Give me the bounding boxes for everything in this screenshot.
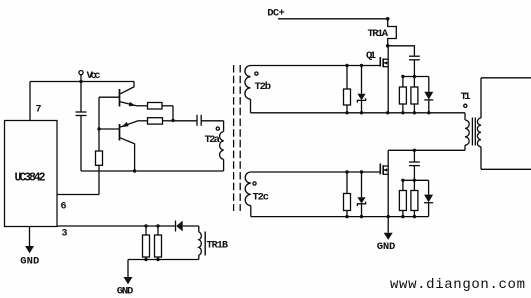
diode D1 [428,77,430,92]
node junction Q1source-railA [386,111,389,114]
svg-text:TR1B: TR1B [207,240,229,251]
node junction R6-railA [401,111,404,114]
diode D3 (cathode left) [175,221,177,232]
node junction base Qb [97,127,100,130]
resistor R1 (top, horizontal) [148,103,163,110]
svg-text:Vcc: Vcc [87,70,101,82]
node junction R8-gate rail 2 [345,170,348,173]
wire T2c top rail [251,171,380,173]
transformer winding TR1B [198,226,200,232]
svg-text:T2b: T2b [255,81,272,93]
node junction Q2source-railC [387,215,390,218]
node junction D1-railA [427,111,430,114]
node junction TR1A / Q1 drain [386,44,390,48]
resistor R11 [411,191,418,211]
phase dot T2b [255,72,258,75]
node junction Z1-gate rail [360,64,363,67]
winding T1 secondary [480,78,482,118]
transistor Q NPN top [119,89,121,107]
node junction collector-rail [133,169,136,172]
node junction R8-railC [345,215,348,218]
node junction Z1-railA [360,111,363,114]
zener Z2 [361,172,363,197]
svg-text:GND: GND [20,255,39,267]
wire rail B (drain to T1 bottom) [388,149,465,151]
node junction Z2-gate rail 2 [360,170,363,173]
svg-text:TR1A: TR1A [368,28,389,40]
wire snubber rail top [403,76,429,78]
node junction Z2-railC [360,215,363,218]
zener Z1 [361,66,363,94]
resistor Rb2 (vertical) [155,235,162,257]
node junction Rb2 bottom [156,258,159,261]
node junction R11-railC [413,215,416,218]
wire base chain vertical [98,97,100,151]
svg-text:Q1: Q1 [366,50,376,62]
core bar TR1B [204,232,206,256]
svg-text:DC+: DC+ [267,7,285,19]
wire T2b top rail [251,65,381,67]
transformer winding T2c [245,172,251,206]
resistor R2 (bottom, horizontal) [148,118,163,124]
wire TR1A to snubber cap [388,46,415,56]
capacitor C1 (Vcc filter) [80,82,82,113]
node junction R10-railC [401,215,404,218]
winding T1 primary lead [464,113,466,120]
transformer core T2 (dashed) [233,65,235,211]
node junction R5-gate rail [345,64,348,67]
transformer core T1 [471,118,473,146]
wire pin6 [57,194,99,196]
wire rail y171 [81,170,224,172]
resistor R7 [411,87,418,104]
svg-text:GND: GND [377,241,396,253]
wire pin3 / box-bottom rail [57,225,175,227]
svg-text:7: 7 [36,105,42,116]
node junction R7-railA [413,111,416,114]
resistor R base-drive [96,151,103,165]
node junction C3-snubber rail [413,75,416,78]
resistor R5 (gate bleed top) [344,89,351,105]
transformer winding T2b [245,66,251,100]
resistor R8 (gate bleed bottom) [344,194,351,211]
svg-text:UC3842: UC3842 [15,172,46,185]
phase dot T1 [464,104,467,107]
capacitor C4 snubber [413,150,415,162]
ground GND (UC3842) [29,227,31,247]
svg-text:www.diangon.com: www.diangon.com [390,277,525,293]
node junction Rb1 bottom [144,258,147,261]
op-amp U1 UC3842 box [5,121,58,227]
transistor Q2 MOSFET [379,164,381,175]
wire Vcc rail [30,81,134,83]
diode D2 [428,180,430,194]
wire join R1-R2 [172,106,174,121]
ground GND (power stage) [387,217,389,233]
phase dot T2a [216,127,219,130]
node junction C4-snubber rail 2 [413,179,416,182]
svg-text:3: 3 [62,229,68,240]
phase dot T2c [253,182,256,185]
wire pin7 vertical [29,82,31,121]
transistor Q PNP bottom [119,124,121,141]
node junction C4-railB [413,149,416,152]
resistor R10 [399,191,406,211]
svg-text:T2a: T2a [205,134,221,146]
wire load box top [481,77,531,79]
svg-text:T1: T1 [461,91,471,103]
wire bottom rail TR1B [128,259,199,261]
node junction R10-snubber rail 2 [401,179,404,182]
wire snubber rail bottom [403,179,429,181]
svg-text:6: 6 [61,202,67,213]
wire rail C [251,216,429,218]
resistor R6 [399,87,406,104]
node junction DC+ / TR1A [386,17,390,21]
svg-text:GND: GND [117,286,134,298]
capacitor C3 snubber [409,55,420,57]
capacitor C2 coupling [196,115,198,126]
node junction Vcc rail [79,80,82,83]
resistor Rb1 (vertical) [143,235,150,257]
wire rail A [251,112,466,114]
transformer winding T2a [223,121,225,132]
svg-text:T2c: T2c [253,192,270,204]
ground GND (TR1B) [127,260,129,278]
wire DC+ rail [278,18,388,20]
node junction Rb1 top [144,224,147,227]
node junction R5-railA [345,111,348,114]
node junction Rb2 top [156,224,159,227]
inductor TR1A [388,19,397,46]
terminal Vcc [79,71,83,75]
node junction R6-snubber rail [401,75,404,78]
wire load box bottom [481,168,531,170]
